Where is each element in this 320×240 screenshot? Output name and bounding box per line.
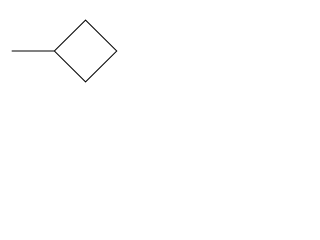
wire — [12, 50, 55, 52]
node D1: diamond — [54, 20, 116, 82]
